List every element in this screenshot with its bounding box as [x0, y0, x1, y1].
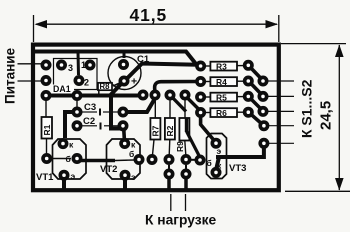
- pad VT2 base: [135, 156, 142, 163]
- leader wires to power pads: [18, 64, 42, 81]
- resistor R2: [165, 118, 175, 140]
- wire C2 right to VT2 collector: [122, 128, 126, 140]
- dimension 24,5 right: [281, 44, 350, 192]
- wire R1 bottom pad to VT1 base: [52, 158, 71, 160]
- svg-text:41,5: 41,5: [130, 5, 168, 25]
- wire VT1 base bus to VT2 base: [80, 159, 115, 163]
- op-amp DA1 outline: [54, 59, 98, 90]
- pad C2 right: [119, 122, 126, 129]
- svg-text:R8: R8: [100, 82, 111, 91]
- svg-text:VT1: VT1: [36, 172, 54, 183]
- svg-text:б: б: [207, 158, 212, 168]
- svg-text:б: б: [129, 149, 134, 159]
- pad VT3 emitter: [212, 140, 219, 147]
- svg-text:К нагрузке: К нагрузке: [145, 213, 217, 228]
- transistor VT1 outline: [53, 139, 87, 179]
- wire R2 leads: [169, 99, 171, 118]
- svg-text:2: 2: [84, 78, 89, 88]
- wire R1 leads: [45, 100, 47, 117]
- pad DA1 row3: [42, 92, 49, 99]
- svg-text:24,5: 24,5: [318, 101, 335, 130]
- dimension 41,5 top: [34, 15, 279, 42]
- resistor R7: [150, 118, 160, 140]
- svg-text:VT3: VT3: [229, 163, 246, 174]
- svg-text:R7: R7: [151, 125, 161, 136]
- pad VT1 emitter: [60, 172, 67, 179]
- wire C3 left to VT1 collector: [65, 112, 74, 138]
- wire VT1 emitter to ground edge: [62, 178, 66, 190]
- wire R9 trace overlay: [185, 118, 188, 132]
- wire R9 leads: [184, 99, 186, 118]
- wire R9 bottom to VT3 base: [187, 132, 200, 157]
- pad R row left: [197, 62, 204, 69]
- pad C1 minus: [120, 77, 127, 84]
- transistor VT2 outline: [107, 139, 141, 179]
- svg-text:э: э: [131, 172, 136, 182]
- wire R8 left lead: [98, 90, 100, 94]
- svg-text:R3: R3: [216, 62, 227, 72]
- svg-text:+: +: [131, 76, 137, 88]
- wire C3 right trace: [126, 100, 154, 112]
- svg-text:к: к: [131, 140, 136, 150]
- svg-text:R6: R6: [216, 108, 227, 118]
- svg-text:C3: C3: [84, 102, 96, 113]
- wire diagonal to VT3 emitter: [201, 116, 215, 142]
- wire VT2 emitter to ground edge: [123, 178, 127, 190]
- capacitor C1 outline: [108, 57, 141, 90]
- svg-text:3: 3: [68, 63, 73, 73]
- pad VT2 emitter: [121, 172, 128, 179]
- svg-text:R9: R9: [175, 141, 185, 152]
- wire bottom pads verticals to edge: [169, 165, 186, 191]
- pad VT1 collector: [59, 140, 66, 147]
- resistor R6: [210, 108, 237, 117]
- pad DA1 pin row1: [42, 61, 49, 68]
- svg-text:Питание: Питание: [3, 47, 18, 104]
- C2 body tick: [100, 123, 102, 130]
- resistor R8: [98, 83, 112, 90]
- wire pad186 to VT3 base: [191, 159, 196, 161]
- wire top supply bus: [35, 52, 198, 92]
- pad mid row: [139, 91, 146, 98]
- pad R1 bottom: [43, 155, 50, 162]
- resistor R3: [210, 62, 237, 71]
- svg-text:R5: R5: [216, 93, 227, 103]
- svg-text:DA1: DA1: [53, 84, 71, 94]
- wire pad263/143 riser to VT3: [216, 147, 264, 168]
- resistor R5: [210, 93, 237, 102]
- label DA1: [52, 84, 74, 94]
- pad C3 left: [73, 108, 80, 115]
- pad VT1 base: [73, 155, 80, 162]
- pad VT3 collector: [212, 169, 219, 176]
- pad ladder right col: [259, 77, 266, 84]
- pad VT3 base: [196, 156, 203, 163]
- wire diagonal pad185 to R6: [187, 97, 201, 111]
- pad C1 plus: [120, 61, 127, 68]
- C3 body tick: [99, 109, 101, 116]
- wire bus stubs: [78, 52, 124, 75]
- svg-text:к: к: [69, 140, 74, 150]
- wire DA1 pad to C3 pad: [76, 100, 78, 108]
- pad DA1 row2: [42, 77, 49, 84]
- transistor VT3 outline: [207, 134, 227, 179]
- pad load row: [165, 156, 172, 163]
- leader wires to load pads: [171, 194, 186, 211]
- wire ladder diagonals right side: [250, 67, 263, 125]
- resistor R1: [42, 117, 53, 139]
- pad VT2 collector: [121, 140, 128, 147]
- svg-text:VT2: VT2: [100, 164, 117, 175]
- svg-text:R2: R2: [165, 125, 175, 136]
- pad R7 bottom: [148, 156, 155, 163]
- wire R7 leads: [154, 99, 156, 118]
- resistor R4: [210, 77, 237, 86]
- wire thick trace C1/R8 to pads: [48, 83, 141, 129]
- wire diagonal pad155 to R2 top: [171, 96, 186, 112]
- leader wires to switch pads: [267, 81, 294, 143]
- pad C3 right: [119, 108, 126, 115]
- svg-text:э: э: [71, 171, 76, 181]
- resistor R9: [179, 118, 189, 141]
- board outline: [33, 45, 279, 191]
- svg-text:R4: R4: [216, 77, 227, 87]
- svg-text:R1: R1: [42, 124, 52, 135]
- svg-text:C1: C1: [137, 54, 150, 65]
- svg-text:К S1...S2: К S1...S2: [299, 79, 315, 138]
- wire R8 right to C1: [113, 82, 122, 86]
- pad C2 left: [73, 122, 80, 129]
- pad R row right: [245, 62, 252, 69]
